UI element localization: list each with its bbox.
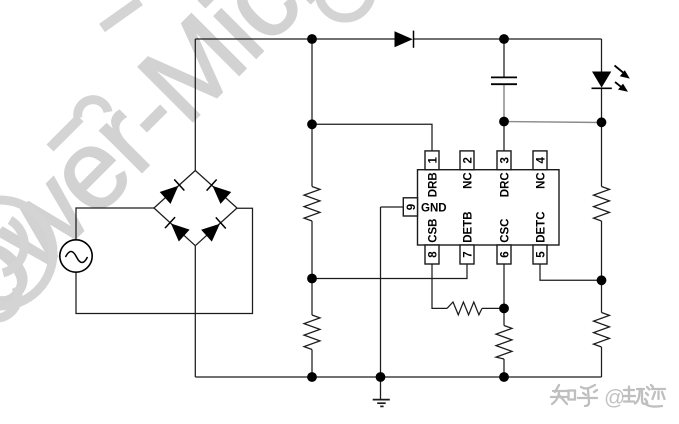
bottom rail junction left: [307, 372, 317, 382]
watermark upper-row fragment r stem: [50, 118, 80, 148]
AC source V1: [60, 240, 92, 272]
wire: node C to node D (gray): [504, 122, 602, 123]
svg-text:4: 4: [536, 157, 548, 164]
watermark upper-row fragment stroke: [102, 1, 140, 28]
glyph hu: [578, 385, 597, 406]
glyph zhi: [551, 385, 575, 404]
wire: pin 8 CSB down to R5: [432, 264, 447, 308]
wire: left shunt below R2: [311, 350, 313, 378]
svg-text:6: 6: [500, 251, 512, 257]
wire: bridge edge right-top: [195, 171, 237, 209]
U1 pin 1 box: [425, 151, 440, 170]
wire: AC source top to bridge left vertex: [76, 208, 154, 240]
bridge diode D3 (left-top edge): [160, 179, 185, 204]
U1 pin 3 box: [497, 151, 512, 170]
svg-text:DRB: DRB: [427, 172, 439, 197]
resistor R6 (below node F): [496, 326, 512, 360]
resistor R4 (lower right): [594, 313, 610, 348]
LED arrow 1: [615, 66, 630, 79]
wire: bridge edge bottom-right: [195, 208, 237, 246]
node E junction: [597, 275, 607, 285]
glyph gui: [623, 387, 647, 405]
U1 pin 7 box: [460, 245, 475, 264]
U1 pin 4 box: [533, 151, 548, 170]
wire: pin 7 DETB to left shunt node: [312, 264, 467, 279]
wire: right column node D to R3: [601, 122, 603, 186]
watermark letter fragment bottom-left outer ring: [0, 200, 53, 306]
LED arrow 2: [615, 82, 628, 92]
wire: bridge edge left-top: [154, 171, 195, 209]
resistor R1 (upper left shunt): [304, 187, 320, 222]
svg-text:NC: NC: [462, 172, 474, 189]
U1 pin 5 box: [533, 245, 548, 264]
wire: node B to pin 1 DRB: [312, 124, 432, 151]
U1 pin 6 box: [497, 245, 512, 264]
svg-text:GND: GND: [421, 203, 447, 215]
svg-text:CSB: CSB: [427, 219, 439, 243]
svg-text:2: 2: [463, 157, 475, 163]
svg-text:1: 1: [428, 157, 440, 164]
watermark letter fragment bottom-left tail arc: [0, 287, 18, 318]
watermark letter fragment top-right: [319, 0, 371, 18]
bridge diode D6 (bottom-right edge): [201, 217, 226, 242]
wire: node F to R6: [503, 308, 505, 325]
wire: pin 6 CSC down to node F: [503, 264, 505, 308]
diode D1 (series, top rail): [395, 31, 413, 47]
node DETB junction: [307, 274, 317, 284]
svg-text:5: 5: [536, 251, 548, 258]
svg-text:8: 8: [428, 251, 440, 258]
svg-text:9: 9: [406, 204, 418, 210]
svg-text:DETB: DETB: [462, 211, 474, 242]
svg-text:@: @: [604, 387, 625, 410]
node junction top-cap rail: [499, 34, 509, 44]
wire: bridge edge bottom-left: [154, 208, 195, 246]
svg-text:DETC: DETC: [535, 211, 547, 242]
svg-text:NC: NC: [535, 172, 547, 189]
wire: ground column vertical: [380, 207, 382, 377]
bottom rail junction R6: [499, 372, 509, 382]
svg-text:CSC: CSC: [499, 219, 511, 243]
svg-text:7: 7: [463, 251, 475, 257]
U1 pin 8 box: [425, 245, 440, 264]
capacitor C1: [491, 77, 517, 84]
watermark letter fragment bottom-left inner ring: [3, 220, 24, 273]
U1 pin 2 box: [460, 151, 475, 170]
svg-text:3: 3: [500, 157, 512, 163]
node D junction: [597, 117, 607, 127]
wire: left shunt vertical upper (node B to R1): [311, 39, 313, 187]
wire: right column top (rail to LED anode): [601, 39, 603, 72]
wire: cap bottom lead (gray): [503, 84, 505, 121]
resistor R3 (upper right): [594, 187, 610, 222]
wire: left shunt between R1 and R2: [311, 221, 313, 315]
glyph ji: [645, 385, 665, 407]
wire: right column R4 to bottom rail: [601, 347, 603, 377]
op-amp/controller IC U1 body: [418, 170, 560, 245]
wire: pin 5 DETC to right column node E: [540, 264, 602, 280]
bottom rail junction ground: [376, 372, 386, 382]
wire: pin 9 GND to ground column: [381, 206, 404, 208]
wire: R5 to node F: [482, 307, 504, 309]
watermark zhihu @guiji: [551, 385, 597, 406]
U1 pin 9 box: [403, 198, 418, 216]
node B junction: [307, 119, 317, 129]
watermark upper-row fragment r arm: [78, 100, 108, 118]
wire: bridge - output down to bottom rail: [194, 246, 196, 377]
LED D2: [592, 66, 630, 92]
wire: top rail left segment: [195, 38, 394, 40]
wire: LED cathode to node D: [601, 88, 603, 122]
node junction top-left rail: [307, 34, 317, 44]
wire: R6 to bottom rail: [503, 359, 505, 377]
resistor R5 (horizontal, pin8 to node F): [447, 302, 482, 315]
wire: right column R3 to node E: [601, 221, 603, 313]
svg-text:DRC: DRC: [499, 172, 511, 197]
wire: pin 3 DRC up to node C: [503, 122, 505, 151]
wire: cap top lead: [503, 39, 505, 77]
wire: top-left vertical (bridge + output to top rail): [194, 39, 196, 171]
ground: [373, 377, 390, 406]
resistor R2 (lower left shunt): [304, 315, 320, 350]
wire: bottom rail: [195, 376, 601, 378]
node C junction: [499, 117, 509, 127]
wire: top rail right segment: [414, 38, 602, 40]
node F junction: [499, 304, 509, 314]
wire: AC source bottom to bridge right vertex: [76, 208, 253, 313]
bridge diode D4 (right-top edge): [206, 179, 231, 204]
bridge diode D5 (bottom-left edge): [165, 217, 190, 242]
